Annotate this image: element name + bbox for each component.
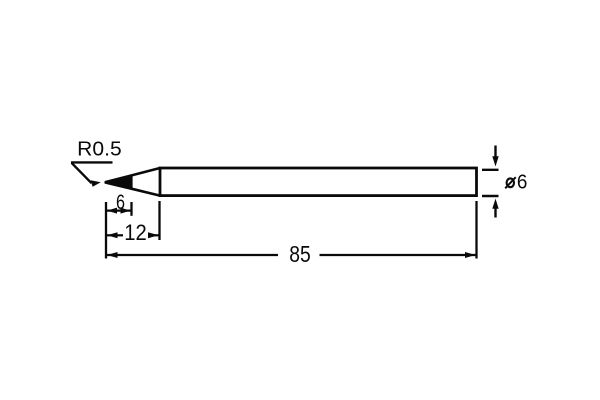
svg-text:6: 6: [116, 191, 125, 214]
svg-text:12: 12: [124, 220, 147, 245]
extension line diameter bottom: [482, 195, 499, 197]
dimension line 85 left segment: [107, 254, 278, 256]
arrowhead 6 left: [107, 208, 117, 214]
label diameter symbol slash: [505, 177, 516, 188]
arrowhead 85 left: [107, 252, 118, 258]
diameter arrow bottom head: [492, 199, 498, 209]
tip cone outline lower edge: [105, 182, 160, 195]
leader diagonal segment: [72, 163, 92, 183]
svg-text:85: 85: [289, 241, 311, 267]
body cylinder outline: [160, 168, 477, 196]
dimension line 12 right segment: [148, 234, 159, 236]
svg-text:R0.5: R0.5: [77, 139, 122, 161]
extension line at body right end: [475, 201, 477, 259]
leader horizontal segment under R0.5: [71, 161, 113, 163]
diameter arrow bottom shaft: [494, 208, 496, 218]
dimension line 6: [107, 210, 131, 212]
extension line at tip point: [105, 202, 107, 259]
arrowhead 12 left: [107, 232, 118, 238]
extension line at cone-cylinder junction: [158, 201, 160, 240]
label diameter symbol ring: [507, 178, 514, 187]
diameter arrow top head: [492, 156, 498, 166]
dimension line 12 left segment: [107, 234, 123, 236]
tip cone black section: [104, 175, 133, 191]
arrowhead 6 right: [121, 208, 131, 214]
extension line diameter top: [482, 169, 499, 171]
svg-text:6: 6: [517, 172, 528, 194]
arrowhead 85 right: [465, 252, 476, 258]
leader arrowhead at tip: [91, 180, 101, 187]
arrowhead 12 right: [148, 232, 159, 238]
tick for 6 dimension: [130, 202, 132, 216]
tip cone outline upper edge: [105, 168, 160, 182]
diameter arrow top shaft: [494, 146, 496, 158]
dimension line 85 right segment: [320, 254, 476, 256]
